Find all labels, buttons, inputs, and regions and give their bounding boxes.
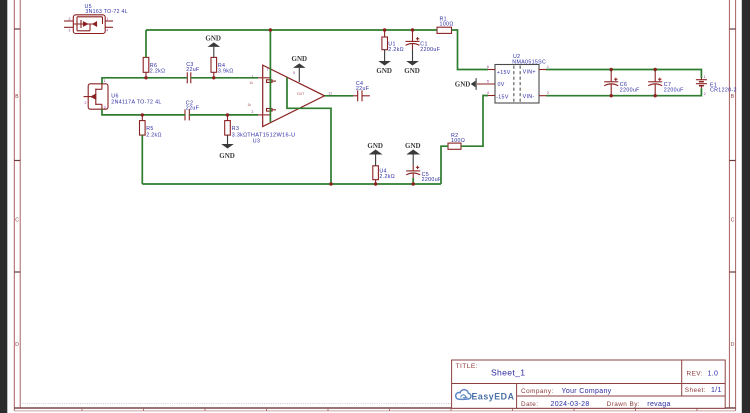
svg-text:3N163 TO-72 4L: 3N163 TO-72 4L (86, 9, 128, 15)
svg-text:-15V: -15V (496, 94, 509, 100)
svg-text:2.2kΩ: 2.2kΩ (146, 132, 162, 138)
resistor R4 (211, 57, 217, 72)
frame row tick right A/B (729, 28, 735, 30)
wire R3 top stub (227, 115, 229, 120)
sheet frame left outer line (13, 0, 15, 411)
wire opamp output (325, 95, 354, 97)
op-amp U3 (263, 65, 325, 126)
svg-text:4: 4 (106, 29, 108, 33)
svg-text:2: 2 (704, 92, 706, 96)
svg-text:1/1: 1/1 (711, 387, 722, 394)
svg-text:3.3kΩ: 3.3kΩ (232, 132, 248, 138)
resistor R3 (225, 121, 231, 136)
dark surround right (742, 0, 750, 413)
capacitor C7 polarized (648, 71, 662, 95)
junction line B / R5 (141, 113, 144, 116)
wire C7 bottom stub (654, 95, 656, 96)
dc-dc module U2 (495, 65, 539, 104)
svg-text:CR1220-2: CR1220-2 (710, 87, 737, 93)
title block outer box (452, 360, 726, 408)
wire U4 bottom stub (375, 180, 377, 184)
junction VIN+ rail / C7 (654, 68, 657, 71)
svg-text:5: 5 (293, 71, 295, 75)
wire opamp V+ drop (269, 30, 271, 122)
title block logo cell divider (516, 384, 518, 409)
wire top rail down to R6 (145, 30, 147, 57)
wire C5 bottom stub (412, 178, 414, 184)
resistor R1 (437, 27, 452, 33)
junction line A / R6 (144, 76, 147, 79)
ground above C5 (405, 142, 421, 165)
svg-text:1k: 1k (250, 81, 254, 85)
svg-text:GND: GND (367, 142, 383, 150)
svg-text:NMA0515SC: NMA0515SC (512, 59, 546, 65)
wire U2 pin1 rail (546, 70, 701, 79)
wire C1 top stub (412, 30, 414, 32)
wire C7 top stub (654, 70, 656, 72)
capacitor C6 polarized (604, 71, 618, 95)
svg-text:2.2kΩ: 2.2kΩ (388, 47, 404, 53)
svg-text:2: 2 (85, 101, 87, 105)
sheet frame bottom inner line (14, 407, 735, 409)
resistor U1 (382, 37, 388, 50)
svg-text:GND: GND (292, 55, 308, 63)
frame row tick right B/C (729, 160, 735, 162)
title block divider under title row (452, 383, 726, 385)
svg-text:D: D (731, 342, 735, 348)
svg-text:+15V: +15V (497, 70, 511, 76)
resistor R6 (143, 57, 149, 72)
svg-text:B: B (15, 94, 19, 100)
svg-text:2: 2 (69, 17, 71, 21)
svg-text:Date:: Date: (521, 401, 539, 408)
svg-text:7: 7 (267, 68, 269, 72)
easyeda logo cloud (456, 390, 471, 400)
svg-text:C: C (731, 218, 735, 224)
wire C6 top stub (610, 70, 612, 72)
wire U1 top stub (384, 31, 386, 38)
wire U2 pin2 rail (546, 88, 701, 95)
svg-text:EasyEDA: EasyEDA (472, 391, 515, 401)
frame row tick right C/D (729, 271, 735, 273)
wire input line B right segment (189, 114, 258, 116)
U2 pin 2 (539, 95, 546, 97)
svg-text:3.9kΩ: 3.9kΩ (218, 69, 234, 75)
transistor U6 (84, 84, 109, 109)
sheet frame right outer line (735, 0, 737, 411)
svg-text:GND: GND (205, 34, 221, 42)
svg-text:GND: GND (405, 142, 421, 150)
U2 pin 1 (539, 69, 546, 71)
wire bottom rail up to R2 (441, 146, 448, 184)
svg-text:Sheet:: Sheet: (685, 387, 706, 394)
svg-text:U3: U3 (253, 138, 260, 144)
junction bottom rail / U4 (374, 182, 377, 185)
frame row tick left A/B (14, 28, 20, 30)
U2 pin 6 (488, 69, 495, 71)
svg-text:3: 3 (104, 106, 106, 110)
ground above U4 (367, 142, 383, 166)
junction line B / R3 (226, 113, 229, 116)
junction top rail / opamp supply (269, 28, 272, 31)
svg-text:2200uF: 2200uF (664, 87, 684, 93)
title block divider under company row (517, 395, 726, 397)
wire C6 bottom stub (610, 95, 612, 96)
svg-text:TITLE:: TITLE: (456, 363, 479, 370)
frame row tick left C/D (14, 271, 20, 273)
svg-text:2200uF: 2200uF (420, 47, 440, 53)
svg-text:GND: GND (455, 80, 471, 88)
svg-text:REV:: REV: (687, 371, 703, 378)
svg-text:1: 1 (704, 75, 706, 79)
junction top rail / C1 (411, 28, 414, 31)
junction line A / R4 (212, 76, 215, 79)
svg-text:22uF: 22uF (186, 67, 200, 73)
svg-text:2.2kΩ: 2.2kΩ (150, 69, 166, 75)
sheet frame bottom outer line (14, 410, 735, 412)
svg-text:2024-03-28: 2024-03-28 (551, 401, 590, 408)
ground below U1 (376, 50, 392, 75)
svg-text:22uF: 22uF (356, 86, 370, 92)
junction VIN- rail / C6 (610, 94, 613, 97)
capacitor C1 polarized (406, 31, 420, 50)
wire R2 to U2 pin4 (461, 96, 488, 147)
svg-text:GND: GND (219, 152, 235, 160)
svg-text:R5: R5 (146, 126, 153, 132)
svg-text:B: B (731, 94, 735, 100)
svg-text:C: C (15, 218, 19, 224)
op-amp pin 1 stub (258, 77, 263, 79)
svg-text:1: 1 (104, 79, 106, 83)
svg-text:22uF: 22uF (186, 106, 200, 112)
ground above op-amp (292, 55, 308, 82)
svg-text:5: 5 (487, 80, 489, 84)
svg-text:3: 3 (69, 29, 71, 33)
svg-text:2200uF: 2200uF (422, 177, 442, 183)
resistor R2 (448, 143, 461, 149)
wire input line A left segment (102, 78, 187, 84)
ground at U2 pin 5 (455, 78, 476, 90)
junction top rail / U1 (383, 28, 386, 31)
wire R5 bottom to feedback rail (141, 135, 143, 184)
svg-text:GND: GND (404, 67, 420, 75)
svg-text:2: 2 (547, 91, 549, 95)
svg-text:OUT: OUT (297, 92, 304, 96)
resistor R5 (140, 121, 146, 136)
title block rev cell divider (681, 360, 683, 396)
svg-text:Company:: Company: (521, 388, 554, 395)
wire feedback bottom rail (142, 183, 441, 185)
svg-text:0V: 0V (498, 82, 505, 88)
svg-text:4: 4 (487, 91, 489, 95)
junction bottom rail / C5 (412, 182, 415, 185)
transistor U5 (64, 15, 113, 34)
wire top rail (146, 29, 437, 31)
op-amp pin 2 stub (258, 114, 263, 116)
svg-text:6: 6 (487, 65, 489, 69)
svg-text:2.2kΩ: 2.2kΩ (379, 174, 395, 180)
svg-text:Drawn By:: Drawn By: (607, 401, 641, 408)
svg-text:VIN-: VIN- (523, 94, 535, 100)
junction VIN+ rail / C6 (610, 68, 613, 71)
svg-text:2: 2 (252, 110, 254, 114)
junction bottom rail / feedback (329, 182, 332, 185)
svg-text:2N4117A TO-72 4L: 2N4117A TO-72 4L (111, 99, 161, 105)
wire input line A right segment (191, 77, 258, 79)
wire R6 bottom to input line A (145, 72, 147, 77)
svg-text:100Ω: 100Ω (451, 138, 465, 144)
U2 pin 4 (488, 95, 495, 97)
capacitor C4 (353, 90, 370, 101)
frame row tick left B/C (14, 160, 20, 162)
svg-text:1.0: 1.0 (708, 371, 719, 378)
ground above R4 (205, 34, 221, 57)
junction VIN- rail / C7 (654, 94, 657, 97)
wire R1 to U2 pin6 (452, 30, 489, 70)
svg-text:D: D (15, 342, 19, 348)
svg-text:GND: GND (376, 67, 392, 75)
svg-text:revaga: revaga (647, 401, 670, 408)
sheet frame left inner line (19, 0, 21, 408)
svg-text:1k: 1k (248, 103, 252, 107)
U2 pin 5 (477, 83, 495, 85)
capacitor C2 (185, 109, 189, 120)
wire U6 source to input line B (102, 109, 185, 115)
resistor U4 (373, 166, 379, 180)
capacitor C5 polarized (406, 165, 420, 178)
svg-text:Your Company: Your Company (562, 388, 612, 395)
dark surround left (0, 0, 7, 413)
svg-text:1: 1 (547, 65, 549, 69)
resistor R4 bottom pin (213, 72, 215, 77)
capacitor C3 (187, 72, 191, 83)
svg-text:VIN+: VIN+ (523, 70, 536, 76)
wire opamp feedback to bottom rail (287, 78, 331, 185)
ground below C1 (404, 50, 420, 75)
sheet frame right inner line (728, 0, 730, 408)
ground below R3 (219, 135, 235, 160)
svg-text:R3: R3 (232, 126, 239, 132)
svg-text:2200uF: 2200uF (620, 87, 640, 93)
svg-text:Sheet_1: Sheet_1 (491, 368, 525, 378)
wire R5 top stub (141, 115, 143, 120)
svg-text:100Ω: 100Ω (440, 22, 454, 28)
battery E1 (696, 78, 707, 88)
frame bottom column ticks (82, 408, 697, 411)
svg-text:1: 1 (106, 17, 108, 21)
